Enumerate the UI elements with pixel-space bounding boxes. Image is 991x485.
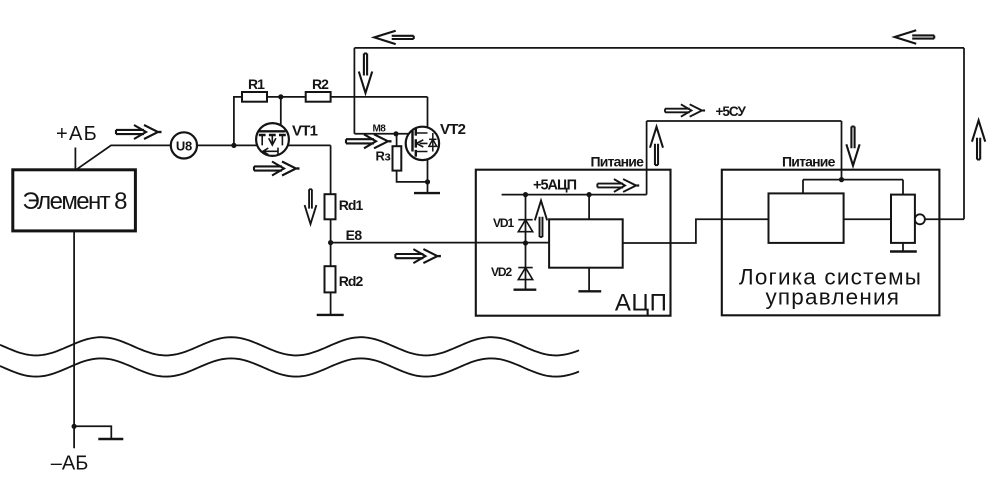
svg-text:АЦП: АЦП — [615, 290, 668, 317]
svg-text:Питание: Питание — [591, 153, 645, 169]
svg-text:Rd1: Rd1 — [339, 197, 364, 213]
svg-text:управления: управления — [765, 285, 900, 310]
svg-text:E8: E8 — [346, 227, 363, 243]
svg-text:VD1: VD1 — [493, 216, 514, 230]
svg-text:VD2: VD2 — [491, 265, 512, 279]
svg-text:VT1: VT1 — [292, 123, 318, 140]
svg-text:R1: R1 — [248, 76, 265, 92]
svg-text:U8: U8 — [176, 138, 192, 153]
svg-text:R2: R2 — [312, 76, 329, 92]
svg-text:Rd2: Rd2 — [339, 273, 364, 289]
svg-text:Питание: Питание — [782, 153, 836, 169]
svg-text:VT2: VT2 — [440, 121, 466, 138]
svg-text:+5СУ: +5СУ — [716, 104, 747, 119]
svg-text:M8: M8 — [373, 123, 387, 134]
svg-text:Rз: Rз — [376, 149, 392, 164]
svg-text:+5АЦП: +5АЦП — [533, 177, 577, 193]
svg-text:–АБ: –АБ — [51, 453, 89, 475]
svg-text:+АБ: +АБ — [56, 123, 98, 145]
svg-text:Элемент 8: Элемент 8 — [22, 188, 127, 215]
